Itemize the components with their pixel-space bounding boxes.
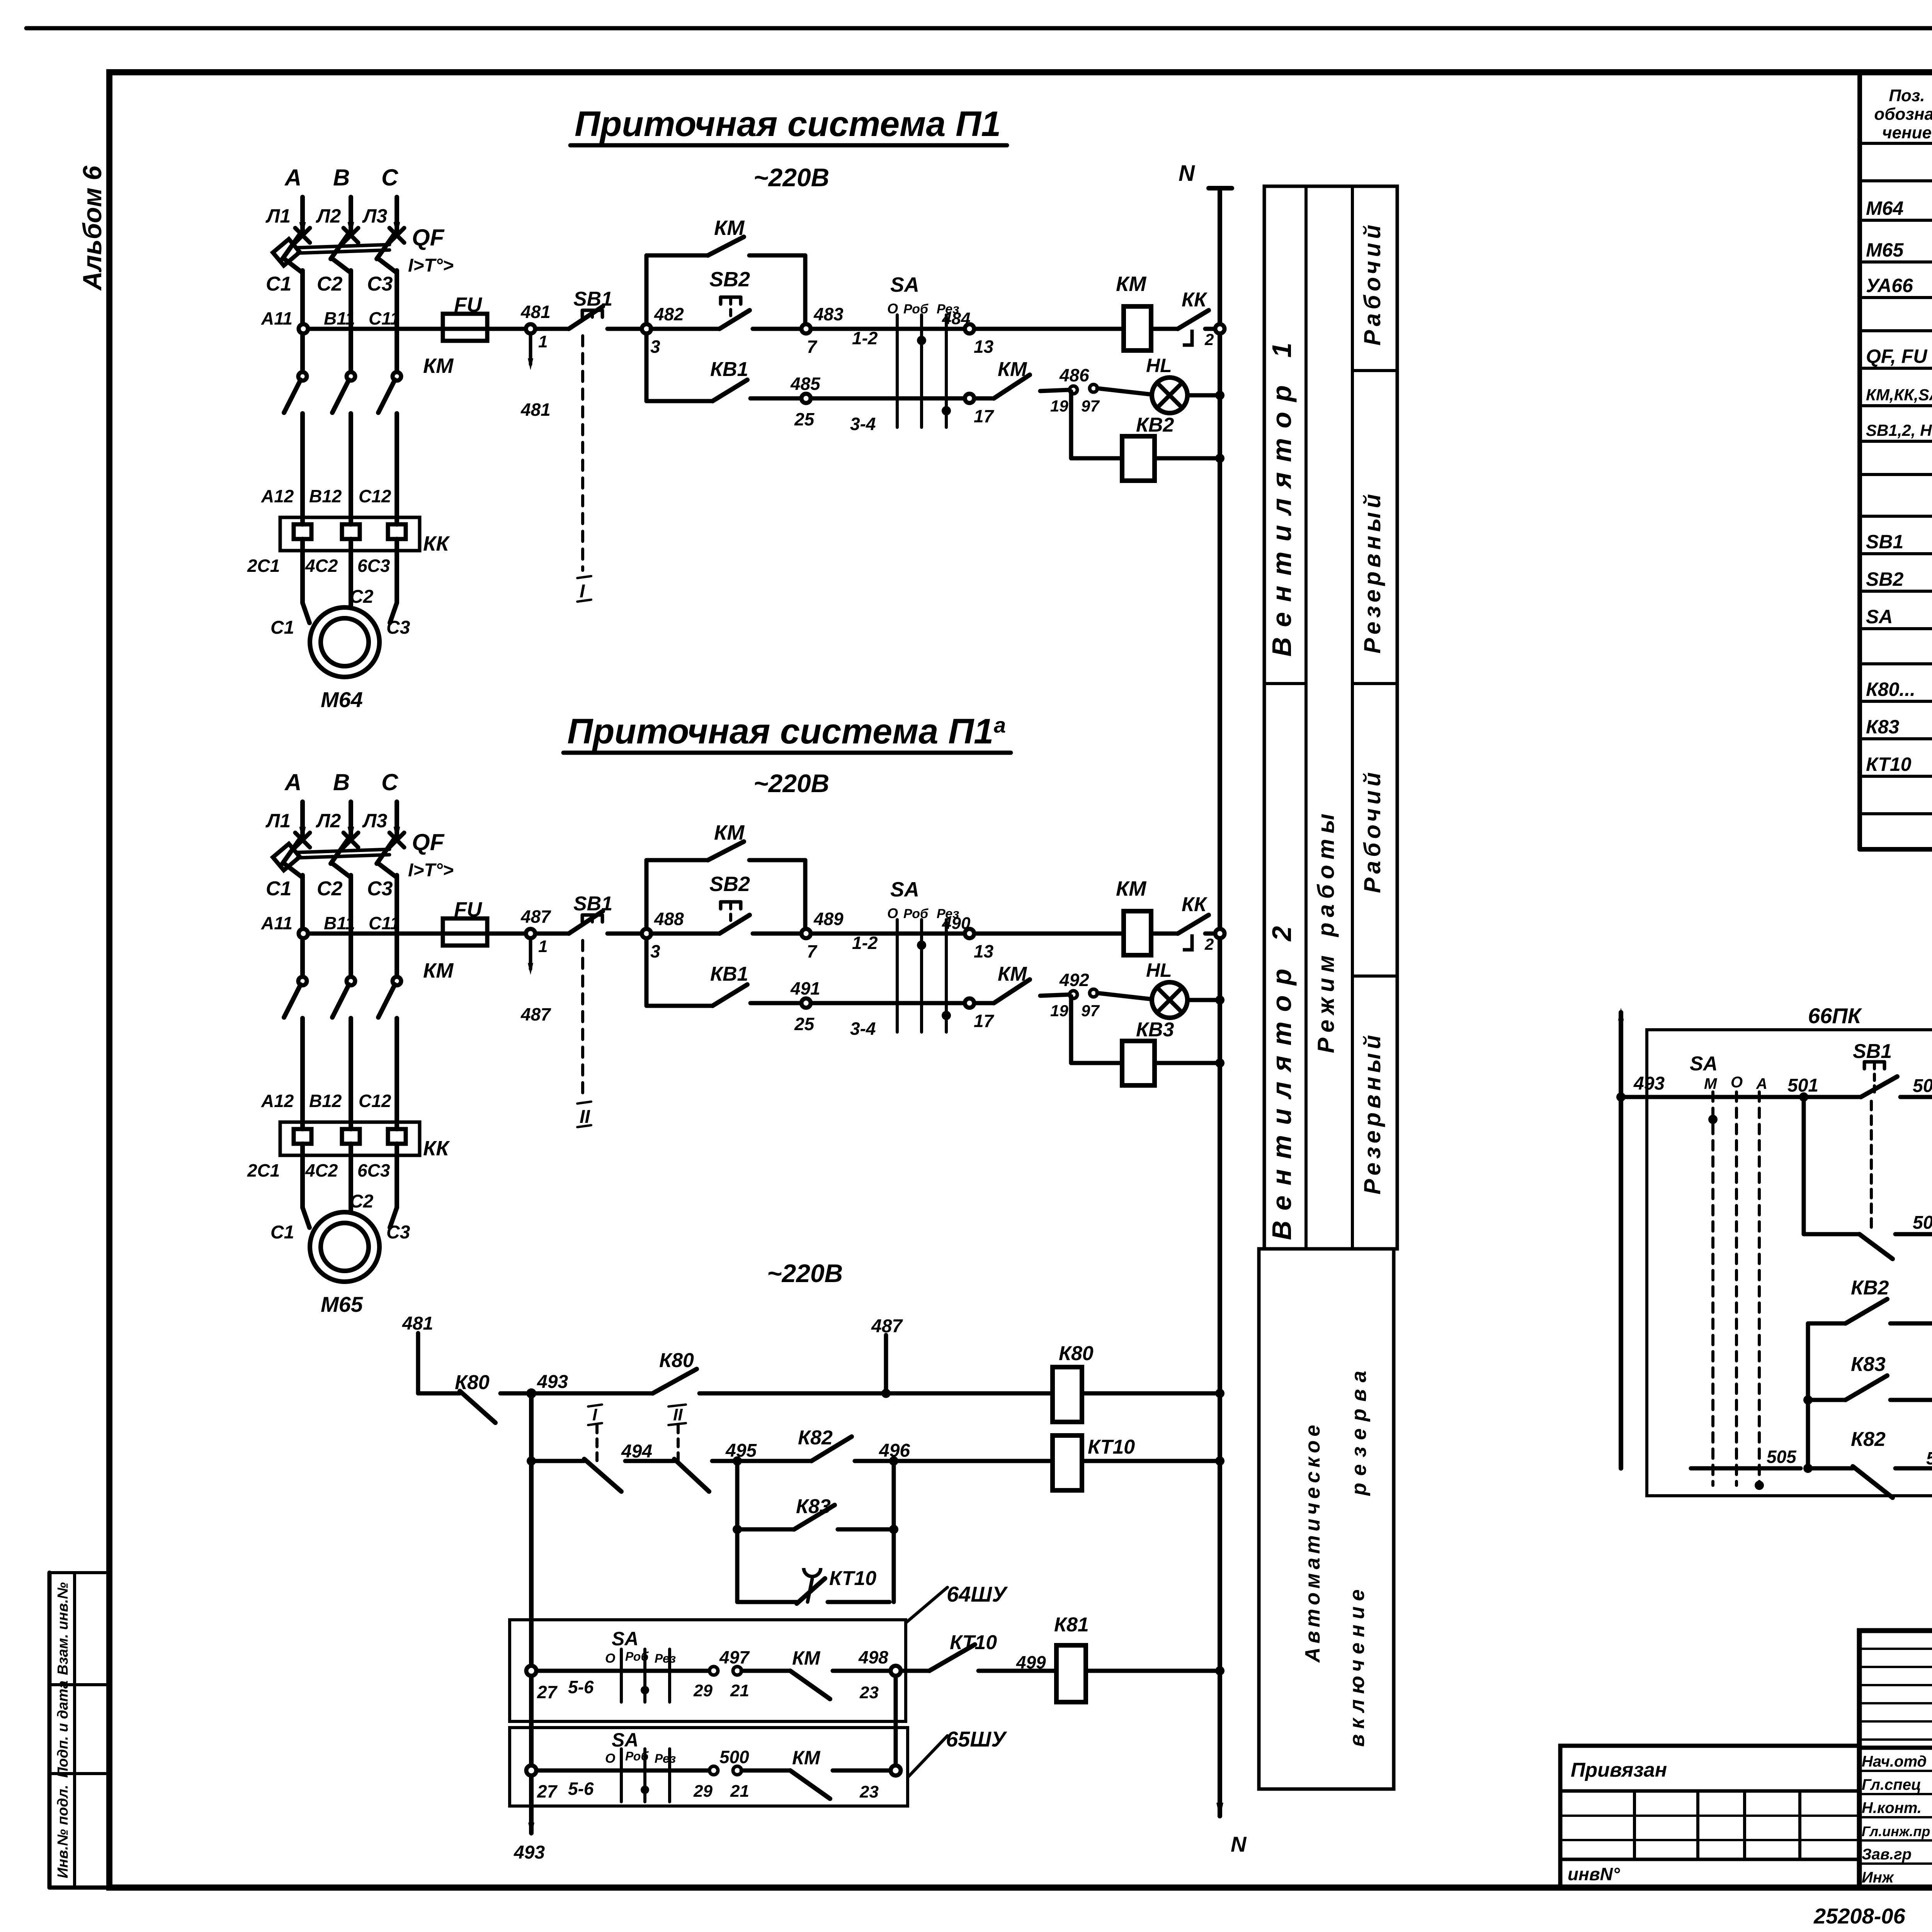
- svg-text:B: B: [333, 165, 350, 190]
- relay КВ2 coil: [1071, 391, 1225, 481]
- left margin label "Подп. и дата": [55, 1680, 71, 1778]
- svg-text:С2: С2: [350, 1191, 374, 1212]
- labels 2С1 4С2 6С3: [247, 556, 390, 576]
- node at 66ПК rung: [1616, 1092, 1626, 1102]
- svg-text:Режим: Режим: [1313, 950, 1339, 1053]
- wire 65ШУ to 64ШУ link: [894, 1676, 898, 1765]
- svg-text:2С1: 2С1: [247, 556, 280, 576]
- node 488: [642, 909, 684, 961]
- svg-text:490: 490: [942, 914, 971, 933]
- svg-text:НL: НL: [1146, 355, 1172, 376]
- lamp HL: [1097, 959, 1187, 1018]
- node 501: [1787, 1075, 1818, 1102]
- svg-text:23: 23: [859, 1683, 879, 1702]
- wire rung 64ШУ: [536, 1669, 709, 1673]
- svg-text:487: 487: [520, 1004, 551, 1024]
- thermal relay KK heater elements: [280, 1122, 420, 1155]
- section marker label: [577, 576, 591, 602]
- label KM (main contacts): [423, 354, 454, 378]
- wire КВ1 to node 485: [750, 396, 802, 401]
- svg-text:3: 3: [650, 337, 660, 357]
- svg-text:Л3: Л3: [362, 205, 387, 227]
- vertical label "Режим": [1313, 950, 1339, 1053]
- node 496: [879, 1440, 910, 1466]
- latch branch 501 down: [1804, 1102, 1859, 1234]
- svg-text:4С2: 4С2: [305, 556, 338, 576]
- wire phase feeder A (system at dy=0): [295, 197, 310, 243]
- svg-text:работы: работы: [1313, 808, 1339, 937]
- circuit breaker QF: [273, 233, 397, 372]
- svg-text:Вентилятор 1: Вентилятор 1: [1267, 333, 1297, 657]
- svg-text:6С3: 6С3: [357, 1160, 390, 1180]
- svg-text:64ШУ: 64ШУ: [947, 1582, 1008, 1606]
- label 494: [621, 1441, 652, 1462]
- wire node13 to KM coil: [974, 327, 1124, 331]
- svg-text:3-4: 3-4: [850, 1019, 876, 1039]
- svg-text:SB2: SB2: [709, 268, 750, 291]
- svg-text:Роб: Роб: [903, 302, 929, 316]
- svg-text:Л3: Л3: [362, 810, 387, 832]
- node 23 (65ШУ): [891, 1765, 901, 1776]
- label 5-6: [568, 1677, 594, 1697]
- relay КВ1 contact: [646, 938, 748, 1006]
- svg-text:КВ2: КВ2: [1136, 414, 1174, 436]
- svg-text:Л2: Л2: [316, 205, 341, 227]
- row SB2 button: [1866, 566, 1932, 590]
- svg-text:К80: К80: [455, 1371, 490, 1394]
- svg-text:27: 27: [537, 1781, 558, 1801]
- left margin label "Альбом 6": [78, 165, 107, 291]
- wire phase feeder B (system at dy=1565): [344, 802, 358, 847]
- svg-text:17: 17: [974, 1011, 995, 1031]
- svg-text:65ШУ: 65ШУ: [946, 1727, 1007, 1751]
- button SB2 contact: [651, 268, 750, 329]
- svg-text:5-6: 5-6: [568, 1779, 594, 1799]
- svg-text:КМ: КМ: [423, 354, 454, 378]
- svg-text:1: 1: [538, 332, 548, 351]
- label KK (heaters): [423, 1137, 450, 1160]
- relay К83 make contact (66ПК): [1803, 1353, 1932, 1405]
- wire node to SB1: [535, 327, 569, 331]
- svg-text:О: О: [1731, 1074, 1743, 1091]
- wire 499 to К81 coil: [978, 1652, 1056, 1672]
- node 487: [520, 906, 551, 956]
- svg-text:Рабочий: Рабочий: [1359, 221, 1385, 345]
- node 13: [942, 309, 994, 357]
- labels Л1 Л2 Л3: [265, 205, 387, 227]
- svg-text:С1: С1: [270, 617, 294, 638]
- svg-text:B: B: [333, 769, 350, 795]
- vertical label "Вентилятор 2": [1267, 916, 1297, 1240]
- node 492 / 19 / 97: [1050, 970, 1100, 1020]
- wire SB2 to node 483: [753, 327, 802, 331]
- title "Приточная система П1": [570, 104, 1007, 145]
- svg-text:2С1: 2С1: [247, 1160, 280, 1180]
- svg-text:КМ: КМ: [792, 1747, 821, 1769]
- vertical label "работы": [1313, 808, 1339, 937]
- vertical label "Рабочий" (fan 2): [1359, 769, 1385, 893]
- selector SA (64ШУ): [605, 1628, 676, 1702]
- section contact I (break): [531, 1405, 621, 1492]
- svg-text:SA: SA: [1866, 606, 1893, 628]
- contactor КМ contact (64ШУ): [742, 1647, 879, 1702]
- contactor KM main contacts: [284, 977, 401, 1122]
- svg-text:О: О: [605, 1751, 615, 1766]
- svg-text:7: 7: [807, 337, 818, 357]
- svg-text:КМ: КМ: [423, 959, 454, 982]
- svg-text:Подп. и дата: Подп. и дата: [55, 1680, 71, 1778]
- svg-text:КВ1: КВ1: [710, 963, 748, 985]
- labels A B C: [284, 165, 399, 190]
- node at N bus (KK): [1215, 324, 1225, 333]
- svg-text:Л1: Л1: [265, 205, 291, 227]
- svg-text:С3: С3: [386, 1222, 410, 1243]
- svg-text:QF, FU: QF, FU: [1866, 345, 1928, 367]
- wire phase feeder C (system at dy=1565): [389, 802, 404, 847]
- wire rung to fuse: [308, 932, 443, 936]
- svg-text:Вентилятор 2: Вентилятор 2: [1267, 916, 1297, 1240]
- wire КВ1 to node 491: [750, 1001, 802, 1005]
- svg-text:I>T°>: I>T°>: [408, 255, 454, 276]
- svg-text:1-2: 1-2: [852, 933, 878, 953]
- wire 481 feeder: [402, 1313, 433, 1393]
- relay КТ10 make contact (after 64ШУ): [901, 1631, 997, 1671]
- svg-text:19: 19: [1050, 397, 1068, 415]
- svg-text:С11: С11: [369, 308, 400, 328]
- svg-text:SA: SA: [612, 1628, 638, 1650]
- svg-text:КМ: КМ: [1116, 877, 1146, 900]
- nodes 497 / 29 / 21: [693, 1647, 750, 1700]
- svg-text:Инж: Инж: [1862, 1869, 1895, 1886]
- label ~220В (system 1): [753, 163, 829, 192]
- contactor КМ contact (65ШУ): [742, 1747, 879, 1801]
- svg-text:С3: С3: [367, 273, 393, 295]
- svg-text:25: 25: [794, 1014, 815, 1034]
- svg-text:5-6: 5-6: [568, 1677, 594, 1697]
- svg-text:QF: QF: [412, 224, 445, 250]
- node 17: [965, 394, 995, 426]
- label QF: [412, 829, 445, 855]
- svg-text:С2: С2: [317, 878, 343, 900]
- labels C1 C2 C3: [266, 273, 393, 295]
- svg-text:Альбом 6: Альбом 6: [78, 165, 107, 291]
- button SB1 contact: [569, 288, 612, 329]
- svg-text:494: 494: [621, 1441, 652, 1462]
- fuse FU: [443, 293, 487, 341]
- vertical label "Резервный" (fan 1): [1359, 490, 1385, 654]
- motor М64: [270, 551, 410, 712]
- thermal relay KK heater elements: [280, 517, 420, 551]
- svg-text:В11: В11: [324, 913, 355, 933]
- svg-text:481: 481: [520, 400, 551, 420]
- svg-text:Н.конт.: Н.конт.: [1862, 1799, 1922, 1816]
- svg-text:резерва: резерва: [1347, 1364, 1371, 1497]
- selector switch SA: [887, 878, 959, 1032]
- svg-text:КМ: КМ: [998, 358, 1027, 381]
- svg-text:481: 481: [402, 1313, 433, 1334]
- svg-text:С1: С1: [270, 1222, 294, 1243]
- svg-text:Поз.: Поз.: [1889, 86, 1925, 105]
- wire К80 coil to N bus: [1082, 1389, 1225, 1398]
- svg-text:Рез: Рез: [655, 1752, 676, 1765]
- svg-text:А12: А12: [261, 486, 294, 506]
- svg-text:М64: М64: [1866, 197, 1903, 219]
- wire 493 vertical: [514, 1393, 545, 1863]
- svg-text:493: 493: [1633, 1073, 1665, 1094]
- node 485: [790, 374, 821, 429]
- svg-text:25: 25: [794, 409, 815, 429]
- relay К80 make contact: [531, 1349, 697, 1393]
- svg-text:SA: SA: [1690, 1053, 1718, 1075]
- wire lamp to N bus: [1187, 391, 1225, 400]
- svg-text:23: 23: [859, 1782, 879, 1801]
- wire rung to К80 coil: [699, 1391, 1053, 1396]
- svg-text:О: О: [605, 1651, 615, 1666]
- wire SB2 to node 489: [753, 932, 802, 936]
- svg-text:Взам. инв.№: Взам. инв.№: [55, 1582, 71, 1675]
- label 5-6 (65ШУ): [568, 1779, 594, 1799]
- svg-text:25208-06: 25208-06: [1813, 1904, 1906, 1928]
- svg-text:491: 491: [790, 978, 820, 998]
- svg-text:1: 1: [538, 937, 548, 956]
- svg-text:7: 7: [807, 941, 818, 961]
- svg-text:497: 497: [719, 1647, 750, 1667]
- node 493-2: [527, 1456, 536, 1466]
- motor М65: [270, 1155, 410, 1316]
- svg-text:SA: SA: [890, 878, 919, 901]
- wire latch middle: [1895, 1213, 1932, 1234]
- svg-text:инвN°: инвN°: [1568, 1864, 1620, 1884]
- wire to node 498: [833, 1669, 891, 1673]
- label 64ШУ with leader: [906, 1582, 1008, 1623]
- fuse FU: [443, 898, 487, 946]
- svg-text:НL: НL: [1146, 959, 1172, 981]
- svg-text:3: 3: [650, 941, 660, 961]
- node N top bar and label: [1179, 161, 1232, 188]
- svg-text:505: 505: [1767, 1447, 1797, 1467]
- svg-text:К82: К82: [1851, 1428, 1886, 1451]
- svg-text:Гл.инж.пр: Гл.инж.пр: [1862, 1823, 1930, 1839]
- label ~220В (system 2): [753, 769, 829, 798]
- relay КВ2 make contact (66ПК): [1808, 1277, 1932, 1328]
- svg-text:В12: В12: [309, 1091, 342, 1111]
- svg-text:I>T°>: I>T°>: [408, 860, 454, 881]
- svg-text:А11: А11: [261, 913, 293, 933]
- thermal relay KK break contact: [1151, 289, 1215, 349]
- wire to node 496: [855, 1459, 889, 1463]
- svg-text:SB1: SB1: [1866, 531, 1903, 553]
- wire 487 feeder: [871, 1316, 903, 1398]
- svg-text:М65: М65: [321, 1292, 363, 1316]
- svg-text:II: II: [673, 1405, 683, 1424]
- svg-text:Нач.отд: Нач.отд: [1862, 1753, 1927, 1770]
- box 64ШУ: [510, 1620, 906, 1721]
- svg-text:97: 97: [1081, 1002, 1100, 1020]
- vertical label "Автоматическое": [1301, 1421, 1324, 1663]
- left margin strip table: [49, 1573, 109, 1888]
- wire phase feeder C (system at dy=0): [389, 197, 404, 243]
- svg-text:В11: В11: [324, 308, 355, 328]
- svg-text:21: 21: [730, 1681, 749, 1700]
- wire SB1 to node 488: [607, 932, 642, 936]
- contactor KM aux contact (lamp): [974, 963, 1069, 1003]
- svg-text:К83: К83: [1866, 716, 1900, 738]
- svg-text:Гл.спец: Гл.спец: [1862, 1776, 1921, 1793]
- row УА66 valve: [1866, 270, 1932, 297]
- svg-text:К80: К80: [1059, 1342, 1094, 1365]
- labels А12 В12 С12: [261, 1091, 391, 1111]
- sheet top border line: [26, 26, 1932, 31]
- wire rung to fuse: [308, 327, 443, 331]
- svg-text:С12: С12: [359, 486, 391, 506]
- wire 493 feeder to 66ПК: [1618, 1008, 1665, 1468]
- svg-text:КМ: КМ: [1116, 272, 1146, 296]
- wire to 502: [1900, 1076, 1932, 1097]
- svg-text:13: 13: [974, 941, 994, 961]
- label 3-4: [850, 1019, 876, 1039]
- node 17: [965, 998, 995, 1031]
- svg-text:КВ3: КВ3: [1136, 1019, 1174, 1041]
- title "Приточная система П1а": [563, 712, 1011, 753]
- labels А11 В11 С11: [261, 308, 400, 328]
- wire top rung 66ПК: [1621, 1095, 1799, 1099]
- wire КТ10 coil to N bus: [1082, 1456, 1225, 1466]
- node 498: [858, 1647, 901, 1676]
- svg-text:SA: SA: [612, 1729, 638, 1751]
- vertical table: fans/regime: [1264, 186, 1397, 1249]
- vertical label "Рабочий" (fan 1): [1359, 221, 1385, 345]
- row SB1 SB2 HL: [1866, 416, 1932, 440]
- svg-text:УА66: УА66: [1866, 275, 1913, 296]
- wire N bus vertical: [1218, 188, 1222, 1816]
- contactor KM main contacts: [284, 372, 401, 517]
- svg-text:КВ1: КВ1: [710, 358, 748, 381]
- button SB1 contact: [569, 893, 612, 934]
- wire to КТ10 coil: [894, 1459, 1053, 1463]
- svg-text:II: II: [580, 1107, 590, 1127]
- contactor KM coil: [1116, 877, 1151, 955]
- svg-text:Резервный: Резервный: [1359, 1031, 1385, 1195]
- wire to node 493: [500, 1391, 527, 1396]
- svg-text:Приточная система П1: Приточная система П1: [575, 104, 1001, 144]
- svg-text:502: 502: [1913, 1076, 1932, 1096]
- svg-text:17: 17: [974, 406, 995, 426]
- parts table row lines: [1860, 143, 1932, 814]
- svg-text:482: 482: [654, 304, 684, 324]
- attachment table: [1560, 1746, 1859, 1888]
- wire КВ2-КВ3 link vertical: [1808, 1323, 1932, 1468]
- svg-text:N: N: [1179, 161, 1195, 186]
- svg-text:КТ10: КТ10: [950, 1631, 997, 1654]
- svg-text:Приточная система П1: Приточная система П1: [567, 712, 993, 751]
- relay К83 make contact branch: [733, 1461, 898, 1534]
- row КТ10 relay: [1866, 749, 1932, 776]
- section marker label: [577, 1102, 591, 1127]
- svg-text:501: 501: [1787, 1075, 1818, 1096]
- vertical label "включение": [1345, 1584, 1369, 1747]
- svg-text:С1: С1: [266, 878, 291, 900]
- svg-text:A: A: [284, 165, 301, 190]
- vertical label "резерва": [1347, 1364, 1371, 1497]
- svg-text:488: 488: [654, 909, 684, 929]
- svg-text:I: I: [580, 581, 585, 602]
- svg-text:~220В: ~220В: [753, 769, 829, 798]
- labels Л1 Л2 Л3: [265, 810, 387, 832]
- svg-text:489: 489: [813, 909, 844, 929]
- svg-text:Инв.№ подл.: Инв.№ подл.: [55, 1785, 71, 1878]
- svg-text:КК: КК: [1182, 289, 1207, 311]
- svg-text:485: 485: [790, 374, 821, 394]
- svg-text:29: 29: [693, 1681, 713, 1700]
- wire 489 to node 13: [811, 932, 965, 936]
- node 482: [642, 304, 684, 357]
- vertical label "Резервный" (fan 2): [1359, 1031, 1385, 1195]
- svg-text:499: 499: [1016, 1652, 1046, 1672]
- wire to 506: [1895, 1448, 1932, 1468]
- node 483: [801, 304, 844, 357]
- parts table header: [1874, 86, 1932, 142]
- section contact II (break): [625, 1405, 709, 1492]
- labels C1 C2 C3: [266, 878, 393, 900]
- wire 487 tap down with arrow: [520, 938, 551, 1024]
- svg-text:КМ: КМ: [714, 821, 745, 844]
- node 491: [790, 978, 820, 1034]
- contactor KM coil: [1116, 272, 1151, 350]
- labels А12 В12 С12: [261, 486, 391, 506]
- node 27 (65ШУ): [526, 1765, 558, 1801]
- svg-text:504: 504: [1913, 1213, 1932, 1233]
- svg-text:Рез: Рез: [655, 1651, 676, 1665]
- selector switch SA: [887, 273, 959, 427]
- nodes 500 / 29 / 21: [693, 1747, 749, 1801]
- svg-text:КК: КК: [423, 1137, 450, 1160]
- row М64 motor: [1866, 193, 1932, 219]
- lamp HL: [1097, 355, 1187, 413]
- relay К82 make contact: [737, 1427, 852, 1461]
- node 481: [520, 302, 551, 351]
- svg-text:Роб: Роб: [903, 906, 929, 921]
- node at N bus (KK): [1215, 929, 1225, 938]
- section marker dashed line: [581, 336, 584, 570]
- svg-text:496: 496: [879, 1440, 910, 1461]
- wire phase feeder A (system at dy=1565): [295, 802, 310, 847]
- svg-text:включение: включение: [1345, 1584, 1369, 1747]
- parts table outer borders: [1860, 72, 1932, 849]
- svg-text:С1: С1: [266, 273, 291, 295]
- node 493: [526, 1372, 568, 1398]
- wire 483 to node 13: [811, 327, 965, 331]
- svg-text:493: 493: [537, 1372, 568, 1392]
- wire to node 23 (65ШУ): [833, 1769, 891, 1773]
- svg-text:2: 2: [1204, 935, 1214, 953]
- svg-text:483: 483: [813, 304, 844, 324]
- wire К81 coil to N bus: [1086, 1666, 1225, 1675]
- svg-text:С3: С3: [386, 617, 410, 638]
- svg-text:FU: FU: [454, 293, 483, 316]
- button SB2 contact: [651, 872, 750, 934]
- wire phase feeder B (system at dy=0): [344, 197, 358, 243]
- svg-text:27: 27: [537, 1682, 558, 1702]
- section marker dashed line: [581, 940, 584, 1096]
- svg-text:500: 500: [719, 1747, 749, 1767]
- relay К82 break contact (bottom): [1808, 1428, 1893, 1498]
- wire fuse to node: [487, 932, 526, 936]
- vertical table: AVR section box: [1259, 1249, 1394, 1789]
- svg-text:С11: С11: [369, 913, 400, 933]
- title block outer: [1859, 1631, 1932, 1888]
- relay КТ10 coil: [1053, 1435, 1135, 1490]
- svg-text:SB2: SB2: [709, 872, 750, 896]
